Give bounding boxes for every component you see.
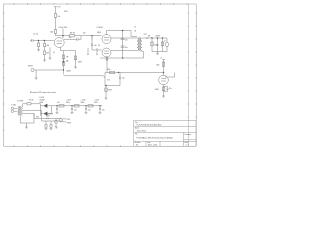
svg-text:22u: 22u — [74, 110, 77, 112]
resistor R12 — [151, 42, 153, 46]
resistor R16 — [88, 105, 93, 107]
wire — [38, 46, 40, 50]
ground — [49, 58, 52, 60]
capacitor C2 coupling — [64, 36, 81, 41]
capacitor C7 screen — [121, 38, 125, 39]
wire grid column lower — [91, 36, 93, 51]
svg-text:C1 10n: C1 10n — [33, 34, 38, 36]
svg-text:+ 22uF: + 22uF — [81, 100, 86, 102]
wire cathode bus — [100, 57, 144, 59]
wire — [106, 58, 108, 73]
node junction — [163, 72, 164, 73]
wire plate upper tube to transformer — [111, 37, 137, 39]
wire — [131, 36, 137, 38]
svg-text:470k: 470k — [107, 69, 111, 71]
wire cathode bus — [61, 50, 76, 52]
resistor R13 — [161, 42, 163, 46]
wire to transformer center — [130, 31, 132, 37]
node junction — [105, 85, 106, 86]
svg-text:VOL: VOL — [107, 80, 110, 82]
svg-text:V4: V4 — [98, 45, 100, 47]
svg-text:4k7: 4k7 — [57, 102, 60, 104]
svg-text:8k: 8k — [135, 31, 137, 33]
svg-text:Push-Pull My Marshall-Style Am: Push-Pull My Marshall-Style Amp — [137, 124, 162, 127]
resistor R1c — [43, 51, 45, 55]
tube V3 upper EL84 — [102, 35, 111, 44]
svg-text:V2: V2 — [165, 77, 167, 79]
node junction — [44, 40, 45, 41]
wire — [55, 33, 57, 35]
node junction — [91, 35, 92, 36]
wire — [157, 38, 159, 52]
wire — [162, 38, 164, 52]
wire — [104, 73, 106, 86]
wire grid leak column — [63, 51, 65, 62]
wire bottom bus — [152, 51, 167, 53]
wire — [44, 41, 46, 44]
ground — [55, 126, 58, 128]
lamp DS1 — [45, 121, 47, 125]
node junction — [71, 105, 72, 106]
node junction — [106, 57, 107, 58]
node junction — [122, 57, 123, 58]
wire — [49, 48, 51, 59]
capacitor C9 — [167, 88, 169, 89]
border tick marks top — [14, 3, 187, 5]
wire heater stub 1 — [87, 48, 89, 55]
svg-text:10k: 10k — [58, 16, 61, 18]
capacitor C14 — [99, 106, 101, 112]
fuse F1 — [27, 103, 31, 105]
resistor R19 — [105, 88, 107, 91]
svg-text:+ 22uF: + 22uF — [66, 100, 71, 102]
tube V2 — [159, 75, 169, 85]
capacitor C8 screen — [121, 46, 125, 47]
ground — [106, 58, 109, 61]
svg-text:V1: V1 — [53, 52, 55, 54]
resistor R10 — [162, 62, 164, 66]
svg-text:22u: 22u — [88, 110, 91, 112]
wire — [55, 123, 57, 124]
wire heater lower run — [42, 111, 63, 122]
wire output rail — [146, 37, 167, 39]
svg-text:+HT: +HT — [58, 6, 61, 8]
svg-text:+ 22uF 350V: + 22uF 350V — [58, 27, 68, 29]
wire cathode — [163, 85, 165, 96]
wire — [38, 40, 54, 42]
svg-text:James Fried: James Fried — [137, 130, 146, 133]
capacitor C12 — [71, 106, 73, 112]
wire secondary bottom — [142, 51, 144, 59]
capacitor C6 — [119, 77, 121, 78]
ground — [85, 112, 88, 114]
wire — [92, 49, 102, 51]
transformer T1 primary — [18, 107, 19, 116]
node +HT terminal flag — [54, 6, 57, 8]
node junction — [151, 37, 152, 38]
diode D1 — [44, 104, 48, 108]
svg-text:Mar 1, 2016: Mar 1, 2016 — [148, 144, 157, 147]
wire plate upper to rail — [106, 31, 108, 35]
wire screen drop — [122, 31, 124, 59]
wire heater stub 2 — [96, 48, 98, 55]
svg-text:J2: J2 — [164, 40, 166, 42]
ground — [43, 60, 46, 62]
svg-text:100k: 100k — [156, 65, 160, 67]
title block — [134, 121, 196, 147]
wire — [164, 87, 168, 92]
wire — [75, 35, 102, 37]
resistor R5 — [54, 14, 56, 18]
border tick marks left — [3, 13, 5, 130]
wire — [41, 104, 52, 115]
wire — [63, 59, 65, 75]
wire heater upper run — [34, 113, 62, 118]
svg-text:1N4007: 1N4007 — [40, 100, 46, 102]
wire — [14, 108, 18, 111]
wire B+ rail — [52, 105, 102, 107]
wire pot bottom — [105, 85, 120, 87]
capacitor C10 — [157, 44, 159, 45]
wire — [31, 103, 41, 105]
node junction — [162, 37, 163, 38]
tube V4 lower EL84 — [102, 48, 111, 57]
ground — [71, 112, 74, 114]
wire center tap — [19, 115, 21, 123]
ground — [56, 112, 59, 114]
wire bridge left leg — [40, 104, 42, 116]
svg-text:47n: 47n — [125, 47, 128, 49]
node net stub — [162, 58, 164, 60]
svg-text:22u: 22u — [102, 110, 105, 112]
resistor R18 — [55, 119, 57, 121]
wire to volume pot — [64, 75, 102, 77]
svg-text:25u: 25u — [169, 88, 172, 90]
resistor R2 — [62, 55, 64, 59]
wire input — [36, 69, 63, 71]
ground — [37, 50, 40, 52]
svg-text:C10 47uF: C10 47uF — [46, 113, 53, 115]
resistor R15 — [74, 105, 79, 107]
wire — [166, 38, 168, 52]
wire — [91, 36, 93, 40]
wire — [106, 57, 108, 58]
ground — [25, 123, 28, 129]
ground — [156, 52, 159, 55]
node junction — [62, 35, 63, 36]
wire ground bus — [20, 113, 34, 123]
svg-text:HTRS: HTRS — [67, 122, 71, 124]
svg-text:D1-D4: D1-D4 — [40, 97, 45, 99]
svg-text:+ 22uF: + 22uF — [94, 100, 99, 102]
wire — [38, 41, 40, 44]
svg-text:V2: V2 — [136, 145, 138, 147]
node junction — [38, 40, 39, 41]
svg-text:T1 PWR: T1 PWR — [17, 100, 24, 102]
wire cathode resistor column — [75, 51, 77, 67]
potentiometer RV1 wiper — [101, 76, 105, 78]
resistor R9 — [110, 71, 115, 73]
svg-text:OUT: OUT — [144, 34, 147, 36]
ground — [99, 112, 102, 114]
transformer T1 secondary — [22, 107, 23, 116]
node junction — [118, 72, 119, 73]
tube V1 — [49, 36, 81, 75]
svg-text:PushPullAmp_18W_SchematicOnly.: PushPullAmp_18W_SchematicOnly.sch (Edite… — [137, 136, 174, 139]
resistor R4 — [74, 56, 76, 60]
ground — [45, 127, 48, 130]
resistor R7 — [70, 35, 75, 37]
node junction — [146, 37, 147, 38]
node junction — [63, 69, 64, 70]
wire plate column — [62, 29, 64, 39]
svg-text:INPUT: INPUT — [28, 66, 33, 68]
svg-text:68k: 68k — [47, 53, 50, 55]
capacitor C11 — [56, 106, 58, 112]
transformer T2 secondary — [140, 38, 142, 50]
svg-text:100k: 100k — [50, 32, 54, 34]
svg-text:100n: 100n — [154, 44, 158, 46]
capacitor C4 — [91, 44, 93, 45]
ground — [162, 96, 165, 98]
svg-text:68k: 68k — [47, 45, 50, 47]
node junction — [99, 105, 100, 106]
wire B+ rail to driver — [56, 35, 70, 37]
svg-text:+: + — [59, 110, 60, 112]
wire — [44, 47, 46, 51]
svg-text:10n: 10n — [94, 45, 97, 47]
border inner right line — [188, 4, 190, 146]
wire cathode — [60, 47, 62, 50]
capacitor C13 — [85, 106, 87, 112]
svg-text:6BQ5: 6BQ5 — [97, 32, 101, 34]
svg-text:V3 EL84: V3 EL84 — [97, 27, 103, 29]
wire plate lower tube to transformer — [111, 50, 137, 52]
svg-text:T2: T2 — [134, 27, 136, 29]
wire heater secondary upper — [23, 110, 42, 112]
wire secondary top — [142, 37, 146, 39]
ground — [50, 127, 53, 130]
connector heater out — [59, 119, 62, 122]
wire — [151, 38, 153, 52]
border inner right ticks — [188, 13, 190, 117]
border tick marks right — [195, 13, 197, 117]
resistor R1b — [43, 44, 45, 47]
transformer T1 core — [20, 106, 21, 115]
svg-text:R8 4k7: R8 4k7 — [70, 32, 75, 34]
svg-text:68k: 68k — [66, 60, 69, 62]
ground — [105, 98, 108, 100]
resistor R3 — [62, 62, 64, 66]
svg-text:47n: 47n — [125, 39, 128, 41]
wire plate supply — [163, 59, 165, 75]
wire — [55, 7, 57, 14]
wire heater secondary lower — [23, 112, 34, 114]
diode D2 — [44, 112, 48, 116]
resistor R14 — [59, 105, 64, 107]
ground — [35, 78, 38, 80]
svg-text:22n: 22n — [122, 78, 125, 80]
wire to V2 grid — [120, 72, 164, 74]
svg-text:6V3: 6V3 — [36, 116, 39, 118]
wire tail — [105, 86, 107, 99]
capacitor C1 — [30, 39, 38, 42]
svg-text:47k: 47k — [83, 33, 86, 35]
transformer T2 primary — [137, 38, 139, 50]
connector J2 speaker jack — [165, 43, 169, 47]
resistor R17 — [50, 121, 52, 125]
ground — [74, 67, 77, 69]
connector J1 input jack — [31, 68, 34, 71]
resistor R11 — [162, 87, 164, 91]
border tick marks bottom — [14, 145, 120, 147]
resistor R1 — [37, 43, 39, 46]
node junction — [122, 30, 123, 31]
node junction — [56, 105, 57, 106]
wire feedback — [168, 73, 175, 78]
node junction — [85, 105, 86, 106]
connector P1 AC plug — [11, 107, 14, 110]
wire — [35, 70, 37, 78]
wire — [119, 73, 121, 86]
wire — [44, 55, 46, 61]
wire pot top — [105, 72, 120, 74]
wire top rail — [107, 30, 132, 32]
resistor R6 — [54, 30, 56, 34]
node junction — [63, 61, 64, 62]
border frame — [4, 4, 197, 146]
node junction — [157, 37, 158, 38]
wire HV secondary — [23, 104, 27, 107]
wire — [55, 17, 57, 29]
svg-text:22n: 22n — [69, 37, 72, 39]
svg-text:(x2): (x2) — [46, 118, 49, 120]
svg-text:1 / 1: 1 / 1 — [186, 145, 189, 147]
transformer T2 core — [139, 37, 140, 51]
